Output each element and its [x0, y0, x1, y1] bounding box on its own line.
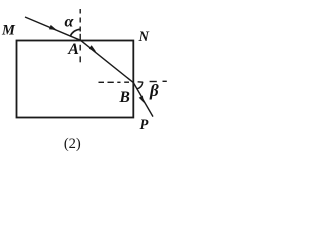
svg-text:N: N: [138, 29, 150, 45]
svg-text:β: β: [149, 81, 159, 100]
svg-text:(2): (2): [64, 136, 81, 152]
svg-text:B: B: [119, 89, 130, 106]
svg-text:α: α: [65, 14, 75, 31]
svg-text:A: A: [67, 41, 79, 58]
svg-text:M: M: [1, 23, 16, 39]
svg-text:P: P: [140, 117, 149, 133]
